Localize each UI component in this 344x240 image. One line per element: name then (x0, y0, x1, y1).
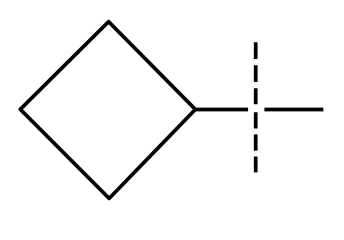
wire (left segment from diamond to dashed line) (195, 108, 248, 112)
dashed vertical line (lower part) (254, 112, 258, 172)
wire (right segment after dashed line) (264, 108, 323, 112)
dashed vertical line (upper part) (254, 42, 258, 104)
diamond node (20, 22, 195, 199)
